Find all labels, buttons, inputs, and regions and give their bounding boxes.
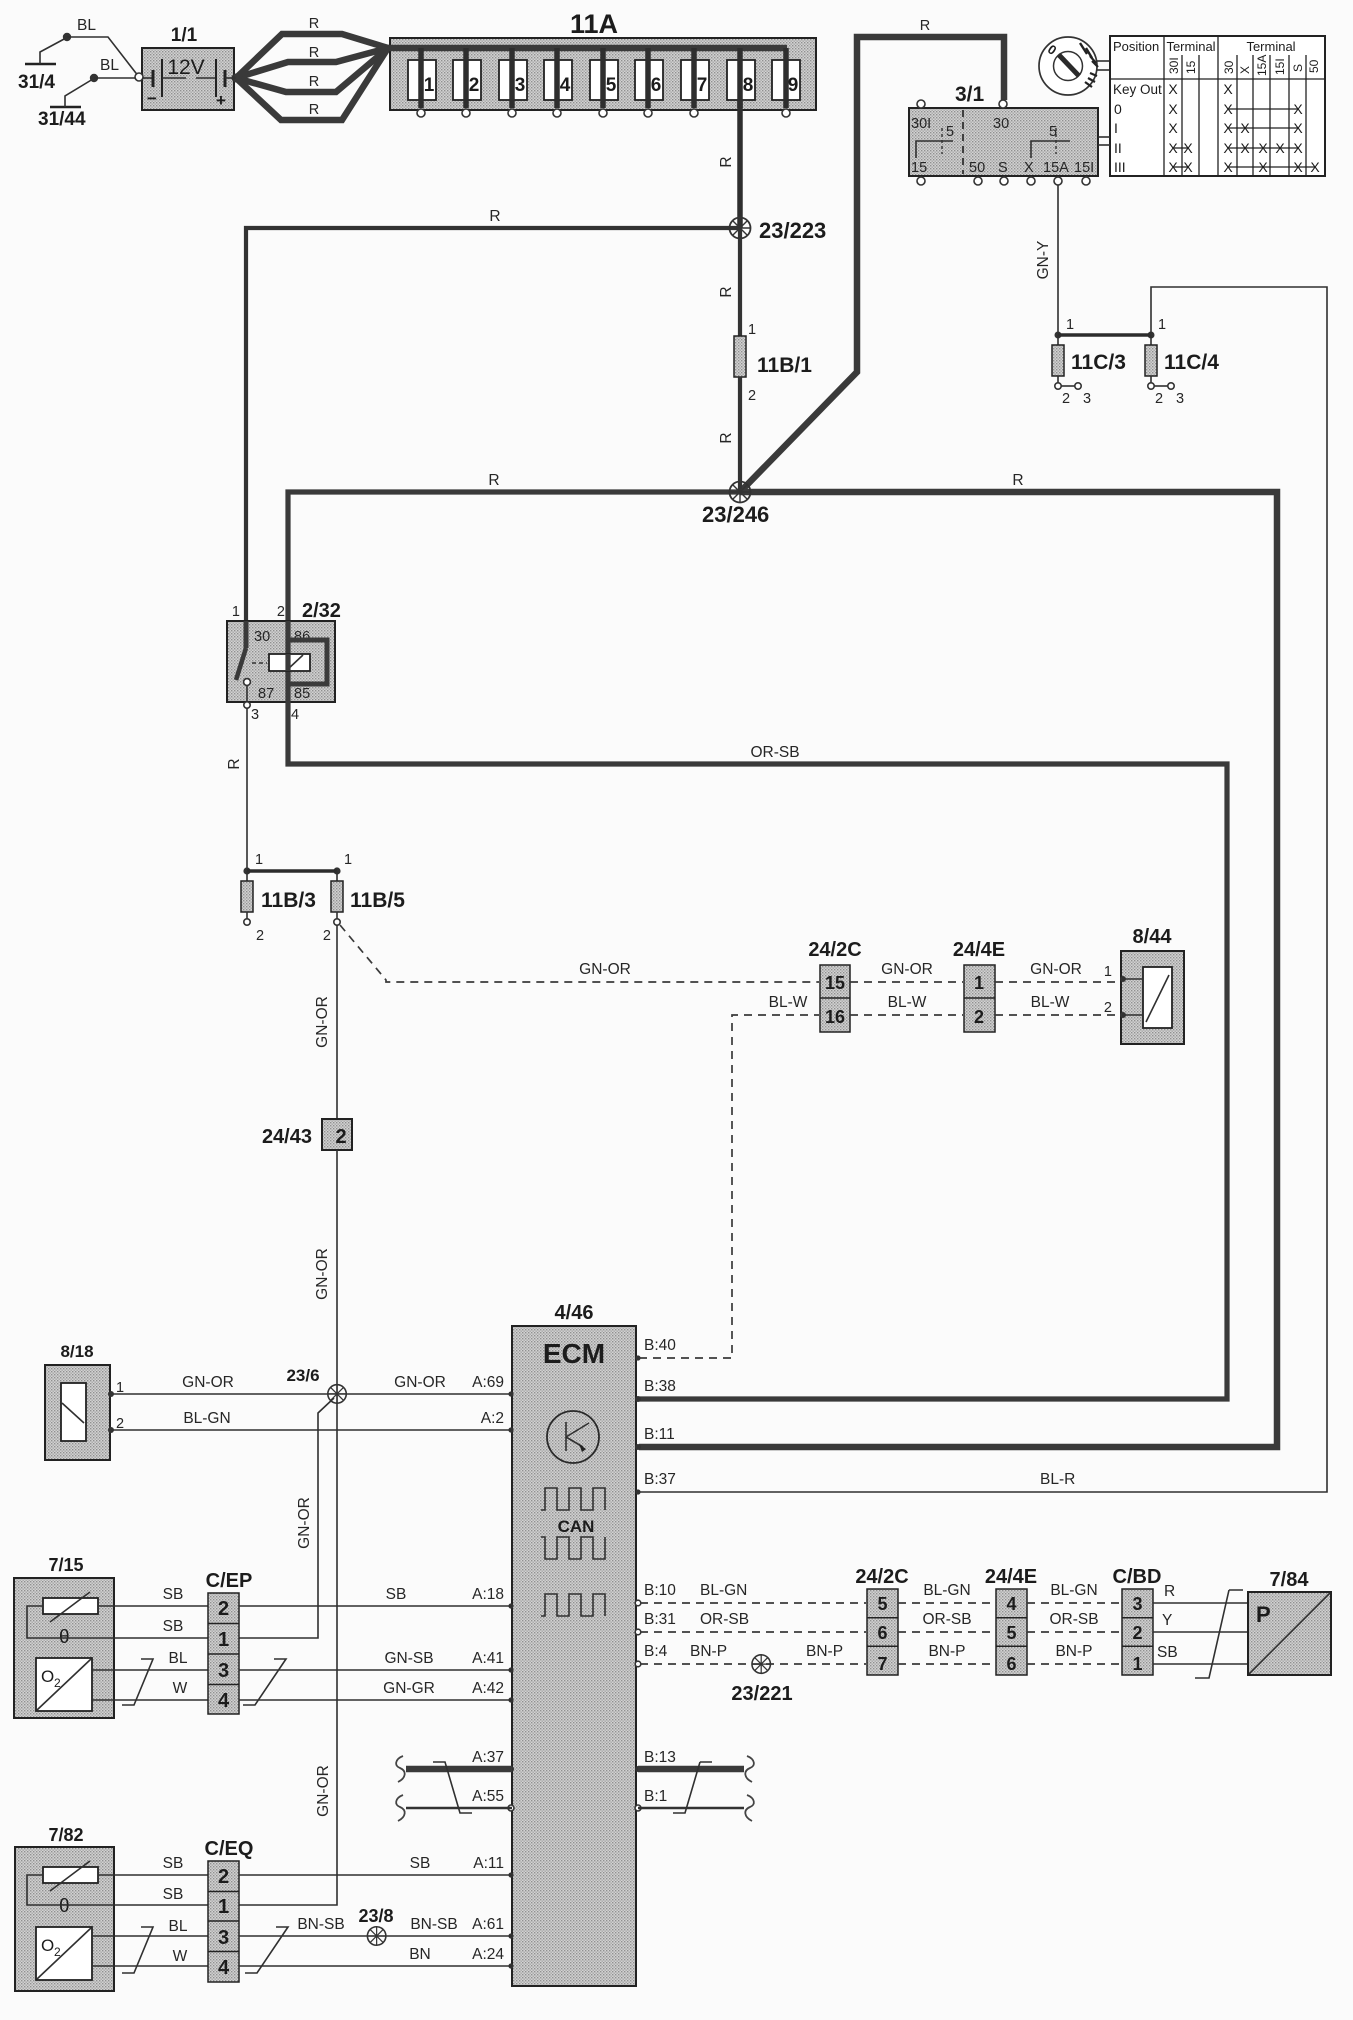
twisted-pair mark A:37/A:55 xyxy=(433,1762,472,1813)
svg-text:1: 1 xyxy=(1104,964,1112,980)
svg-text:3: 3 xyxy=(218,1927,229,1949)
svg-text:BN-P: BN-P xyxy=(806,1643,843,1660)
svg-text:7: 7 xyxy=(697,75,708,96)
svg-text:θ: θ xyxy=(59,1896,70,1917)
svg-text:1: 1 xyxy=(1066,317,1074,333)
svg-text:1: 1 xyxy=(748,322,756,338)
svg-text:2: 2 xyxy=(218,1866,229,1888)
svg-text:S: S xyxy=(998,160,1008,176)
svg-text:X: X xyxy=(1168,101,1178,117)
wire BL from 31/4 to battery xyxy=(67,37,139,77)
svg-text:X: X xyxy=(1168,120,1178,136)
wire B:13 stub xyxy=(638,1766,744,1773)
fuse 3 xyxy=(499,48,527,117)
svg-text:BL-GN: BL-GN xyxy=(1050,1582,1097,1599)
wire BN C/EQ pin4 to ECM A:24 xyxy=(239,1965,512,1967)
svg-text:SB: SB xyxy=(1157,1644,1178,1661)
svg-text:6: 6 xyxy=(1006,1654,1016,1674)
svg-text:R: R xyxy=(309,16,319,32)
svg-text:5: 5 xyxy=(606,75,617,96)
svg-text:BN-P: BN-P xyxy=(928,1643,965,1660)
ECM left pin dots xyxy=(508,1391,514,1968)
splice 23/221 xyxy=(752,1655,770,1673)
twisted-pair marks near C/EP xyxy=(122,1659,153,1705)
svg-text:30I: 30I xyxy=(911,116,931,132)
connector C/BD pins 3,2,1 xyxy=(1113,1566,1162,1675)
wire R from ignition 30 down to 23/246 xyxy=(742,37,1004,490)
svg-text:11B/5: 11B/5 xyxy=(350,889,405,912)
svg-text:R: R xyxy=(920,18,930,34)
svg-text:15I: 15I xyxy=(1273,58,1287,75)
svg-text:2: 2 xyxy=(469,75,480,96)
svg-text:OR-SB: OR-SB xyxy=(922,1611,971,1628)
svg-text:SB: SB xyxy=(163,1855,184,1872)
connector C/EQ xyxy=(205,1838,254,1982)
wire SB C/EP pin2 to ECM A:18 xyxy=(239,1605,512,1607)
svg-text:A:24: A:24 xyxy=(472,1946,504,1963)
svg-text:1: 1 xyxy=(232,604,240,620)
svg-text:−: − xyxy=(147,89,157,108)
svg-text:1/1: 1/1 xyxy=(171,25,198,46)
svg-text:1: 1 xyxy=(218,1896,229,1918)
fuse 11C/4 xyxy=(1145,335,1219,407)
svg-text:4: 4 xyxy=(218,1957,230,1979)
svg-text:2: 2 xyxy=(277,604,285,620)
svg-text:5: 5 xyxy=(877,1594,887,1614)
fuse 1 xyxy=(408,48,436,117)
fuse 8 xyxy=(727,48,755,108)
svg-text:4: 4 xyxy=(218,1690,230,1712)
svg-text:31/4: 31/4 xyxy=(18,72,55,93)
svg-text:A:11: A:11 xyxy=(473,1855,504,1872)
svg-text:1: 1 xyxy=(344,852,352,868)
svg-text:4: 4 xyxy=(291,707,299,723)
wire R 23/246 left to relay pin2 xyxy=(288,492,740,621)
svg-text:24/43: 24/43 xyxy=(262,1126,312,1148)
svg-text:A:61: A:61 xyxy=(472,1916,504,1933)
ignition switch 3/1 xyxy=(909,83,1098,185)
svg-text:BN-SB: BN-SB xyxy=(410,1916,457,1933)
svg-text:50: 50 xyxy=(1307,59,1321,73)
svg-text:24/4E: 24/4E xyxy=(953,939,1005,961)
wire R 23/223 down to 11B/1 xyxy=(738,228,742,336)
svg-text:8/18: 8/18 xyxy=(60,1342,93,1361)
svg-text:A:55: A:55 xyxy=(472,1788,504,1805)
svg-text:3/1: 3/1 xyxy=(955,83,985,106)
svg-text:24/2C: 24/2C xyxy=(808,939,861,961)
svg-text:W: W xyxy=(173,1948,188,1965)
ECM 4/46 xyxy=(512,1302,636,1986)
svg-text:31/44: 31/44 xyxy=(38,109,86,130)
svg-text:X: X xyxy=(1238,66,1252,74)
svg-text:2: 2 xyxy=(256,928,264,944)
wire R battery fan 4 xyxy=(236,48,388,120)
svg-text:GN-Y: GN-Y xyxy=(1035,241,1052,280)
svg-text:85: 85 xyxy=(294,686,310,702)
splice 23/223 xyxy=(730,218,751,239)
svg-text:ECM: ECM xyxy=(543,1338,605,1369)
svg-text:R: R xyxy=(488,472,499,489)
svg-text:4/46: 4/46 xyxy=(555,1302,594,1324)
svg-text:+: + xyxy=(216,91,226,110)
svg-text:BL-W: BL-W xyxy=(1031,994,1070,1011)
fuse 4 xyxy=(544,48,572,117)
svg-text:A:2: A:2 xyxy=(481,1410,504,1427)
svg-text:3: 3 xyxy=(1083,391,1091,407)
connector C/EP xyxy=(206,1570,253,1714)
svg-text:A:18: A:18 xyxy=(472,1586,504,1603)
svg-text:2: 2 xyxy=(1062,391,1070,407)
svg-text:2/32: 2/32 xyxy=(302,600,341,622)
wire A:37 stub xyxy=(406,1766,512,1773)
svg-text:6: 6 xyxy=(651,75,662,96)
svg-text:R: R xyxy=(309,45,319,61)
svg-text:SB: SB xyxy=(386,1586,407,1603)
svg-text:X: X xyxy=(1024,160,1034,176)
fuse 6 xyxy=(635,48,663,117)
svg-text:BN-P: BN-P xyxy=(1055,1643,1092,1660)
svg-text:C/EQ: C/EQ xyxy=(205,1838,254,1860)
ground 31/44 xyxy=(38,74,98,130)
svg-text:R: R xyxy=(309,102,319,118)
svg-text:R: R xyxy=(1012,472,1023,489)
wire R fuse8 down to 23/223 xyxy=(737,100,743,228)
svg-text:B:31: B:31 xyxy=(644,1611,676,1628)
fuse 11C/3 xyxy=(1052,335,1126,407)
svg-text:OR-SB: OR-SB xyxy=(1049,1611,1098,1628)
svg-text:2: 2 xyxy=(335,1126,346,1148)
svg-text:30: 30 xyxy=(993,116,1009,132)
svg-text:CAN: CAN xyxy=(558,1517,595,1536)
svg-text:SB: SB xyxy=(163,1886,184,1903)
wire GN-SB C/EP pin3 to ECM A:41 xyxy=(239,1669,512,1671)
key position table xyxy=(1098,36,1325,176)
svg-text:4: 4 xyxy=(560,75,571,96)
wire BN-P dashed ECM B:4 to 24/2C pin7 via 23/221 xyxy=(640,1663,866,1665)
svg-text:1: 1 xyxy=(1158,317,1166,333)
svg-text:2: 2 xyxy=(116,1416,124,1432)
wire R 23/223 left to relay pin1 xyxy=(246,228,740,650)
connector 24/2C pins 15,16 xyxy=(808,939,861,1032)
svg-text:7/15: 7/15 xyxy=(48,1555,83,1575)
fuse 5 xyxy=(590,48,618,117)
svg-text:3: 3 xyxy=(251,707,259,723)
svg-text:87: 87 xyxy=(258,686,274,702)
svg-text:11C/3: 11C/3 xyxy=(1071,351,1126,374)
svg-text:15A: 15A xyxy=(1043,160,1069,176)
component 7/15 xyxy=(14,1555,208,1718)
twisted-pair mark B:13/B:1 xyxy=(673,1762,712,1813)
svg-text:SB: SB xyxy=(163,1618,184,1635)
wire B:1 stub xyxy=(638,1807,744,1809)
svg-text:Key Out: Key Out xyxy=(1113,82,1162,97)
svg-text:11B/3: 11B/3 xyxy=(261,889,316,912)
connector 24/2C pins 5,6,7 xyxy=(855,1566,908,1675)
svg-text:GN-SB: GN-SB xyxy=(384,1650,433,1667)
svg-text:GN-OR: GN-OR xyxy=(579,961,631,978)
component 8/18 xyxy=(45,1342,124,1460)
svg-text:6: 6 xyxy=(877,1623,887,1643)
svg-text:86: 86 xyxy=(294,629,310,645)
node 11B bus xyxy=(243,867,250,874)
wire R 11B/1 down to 23/246 xyxy=(738,377,742,492)
wire GN-OR dashed 11B/5 to 24/2C pin15 xyxy=(340,925,819,982)
svg-text:B:1: B:1 xyxy=(644,1788,667,1805)
svg-text:11C/4: 11C/4 xyxy=(1164,351,1219,374)
svg-text:30I: 30I xyxy=(1167,57,1181,74)
svg-text:2: 2 xyxy=(218,1598,229,1620)
svg-text:24/2C: 24/2C xyxy=(855,1566,908,1588)
key symbol xyxy=(1039,37,1110,95)
svg-text:III: III xyxy=(1114,159,1126,175)
svg-text:1: 1 xyxy=(424,75,435,96)
svg-text:C/BD: C/BD xyxy=(1113,1566,1162,1588)
svg-text:A:69: A:69 xyxy=(472,1374,504,1391)
connector 24/43 pin2 xyxy=(262,1119,352,1150)
wire SB C/EQ pin2 to ECM A:11 xyxy=(239,1874,512,1876)
svg-text:1: 1 xyxy=(974,973,984,993)
svg-text:2: 2 xyxy=(1132,1623,1142,1643)
svg-text:GN-OR: GN-OR xyxy=(296,1497,313,1549)
wire GN-OR 8/18 pin1 to 23/6 to ECM A:69 xyxy=(110,1393,512,1395)
battery 1/1 xyxy=(135,25,241,110)
svg-text:B:11: B:11 xyxy=(644,1426,675,1443)
svg-text:Terminal: Terminal xyxy=(1246,39,1295,54)
svg-text:B:4: B:4 xyxy=(644,1643,668,1660)
svg-text:GN-OR: GN-OR xyxy=(315,1765,332,1817)
svg-text:GN-OR: GN-OR xyxy=(881,961,933,978)
svg-text:3: 3 xyxy=(1132,1594,1142,1614)
svg-text:S: S xyxy=(1291,64,1305,72)
connector 24/4E pins 4,5,6 xyxy=(985,1566,1037,1675)
svg-text:W: W xyxy=(173,1680,188,1697)
wire GN-OR 11B/5 down to 24/43 xyxy=(336,925,338,1119)
svg-text:BN-SB: BN-SB xyxy=(297,1916,344,1933)
node junction 15A bus xyxy=(1055,332,1062,339)
wire BL-W dashed to 24/2C pin16 from ECM B:40 xyxy=(639,1015,819,1358)
ECM CAN waveforms xyxy=(541,1488,605,1510)
svg-text:2: 2 xyxy=(54,1676,61,1690)
svg-text:Y: Y xyxy=(1162,1612,1172,1629)
svg-text:A:41: A:41 xyxy=(472,1650,504,1667)
svg-text:30: 30 xyxy=(254,629,270,645)
svg-text:GN-GR: GN-GR xyxy=(383,1680,435,1697)
svg-text:BL-GN: BL-GN xyxy=(183,1410,230,1427)
svg-text:R: R xyxy=(718,286,735,297)
svg-text:II: II xyxy=(1114,140,1122,156)
fuse box 11A xyxy=(388,9,816,110)
svg-text:BL-GN: BL-GN xyxy=(923,1582,970,1599)
svg-text:GN-OR: GN-OR xyxy=(314,1248,331,1300)
svg-text:24/4E: 24/4E xyxy=(985,1566,1037,1588)
svg-text:23/8: 23/8 xyxy=(358,1906,393,1926)
svg-text:3: 3 xyxy=(515,75,526,96)
wire GN-OR 24/43 down to 23/6 and C/EQ pin1 xyxy=(239,1150,337,1905)
svg-text:O: O xyxy=(41,1667,54,1686)
svg-text:B:10: B:10 xyxy=(644,1582,676,1599)
svg-text:GN-OR: GN-OR xyxy=(1030,961,1082,978)
svg-text:BL-W: BL-W xyxy=(888,994,927,1011)
svg-text:R: R xyxy=(489,208,500,225)
svg-text:1: 1 xyxy=(116,1380,124,1396)
wires dashed 24/4E to C/BD xyxy=(1027,1602,1121,1604)
svg-text:9: 9 xyxy=(788,75,799,96)
svg-text:BN-P: BN-P xyxy=(690,1643,727,1660)
twisted-pair mark before 7/84 xyxy=(1195,1590,1243,1678)
fuse 11B/3 xyxy=(241,871,316,944)
wire OR-SB dashed ECM B:31 to 24/2C pin6 xyxy=(640,1631,866,1633)
svg-text:R: R xyxy=(226,758,243,769)
svg-text:Terminal: Terminal xyxy=(1166,39,1215,54)
svg-text:BL-GN: BL-GN xyxy=(700,1582,747,1599)
svg-text:B:13: B:13 xyxy=(644,1749,676,1766)
svg-text:GN-OR: GN-OR xyxy=(182,1374,234,1391)
wire R battery fan 3 xyxy=(236,48,388,92)
wire BL-GN dashed ECM B:10 to 24/2C pin5 xyxy=(640,1602,866,1604)
svg-text:R: R xyxy=(1164,1583,1175,1600)
svg-text:2: 2 xyxy=(54,1945,61,1959)
svg-text:15I: 15I xyxy=(1074,160,1094,176)
svg-text:OR-SB: OR-SB xyxy=(700,1611,749,1628)
splice 23/246 xyxy=(730,482,751,503)
component 7/84 xyxy=(1248,1569,1331,1675)
wire OR-SB relay pin4 to ECM B:38 xyxy=(288,702,1227,1399)
wire GN-OR dashed 24/2C to 24/4E xyxy=(850,981,963,983)
wire GN-Y from terminal 15A xyxy=(1057,185,1059,333)
svg-text:0: 0 xyxy=(1114,101,1122,117)
wire A:55 stub xyxy=(406,1807,512,1809)
wire BL-W dashed 24/2C to 24/4E xyxy=(850,1014,963,1016)
fuse 7 xyxy=(681,48,709,117)
svg-text:C/EP: C/EP xyxy=(206,1570,253,1592)
svg-text:GN-OR: GN-OR xyxy=(394,1374,446,1391)
svg-text:BL: BL xyxy=(169,1650,188,1667)
svg-text:R: R xyxy=(718,432,735,443)
wire BN-SB C/EQ pin3 to ECM A:61 via 23/8 xyxy=(239,1935,512,1937)
splice 23/8 xyxy=(367,1927,385,1945)
wire BL-R from 11C/4 pin1 to ECM B:37 xyxy=(638,287,1327,1492)
svg-text:15: 15 xyxy=(825,973,845,993)
svg-text:11A: 11A xyxy=(570,9,618,39)
wire R 23/246 right to ECM B:11 xyxy=(639,492,1277,1447)
fuse 11B/5 xyxy=(323,871,405,944)
svg-text:3: 3 xyxy=(218,1660,229,1682)
svg-text:15: 15 xyxy=(911,160,927,176)
svg-text:R: R xyxy=(309,74,319,90)
wires dashed 24/2C to 24/4E xyxy=(898,1602,995,1604)
svg-text:B:37: B:37 xyxy=(644,1471,676,1488)
svg-text:23/6: 23/6 xyxy=(286,1366,319,1385)
svg-text:A:37: A:37 xyxy=(472,1749,504,1766)
component 8/44 xyxy=(1104,926,1184,1044)
svg-text:1: 1 xyxy=(255,852,263,868)
svg-text:BL-W: BL-W xyxy=(769,994,808,1011)
svg-text:50: 50 xyxy=(969,160,985,176)
svg-text:BL: BL xyxy=(77,17,96,34)
fuse 2 xyxy=(453,48,481,117)
svg-text:23/246: 23/246 xyxy=(702,502,769,527)
svg-text:B:40: B:40 xyxy=(644,1337,676,1354)
svg-text:1: 1 xyxy=(1132,1654,1142,1674)
svg-text:23/221: 23/221 xyxy=(731,1683,792,1705)
svg-text:2: 2 xyxy=(1155,391,1163,407)
svg-text:SB: SB xyxy=(163,1586,184,1603)
svg-text:7/82: 7/82 xyxy=(48,1825,83,1845)
wires C/BD to 7/84 xyxy=(1153,1602,1248,1604)
svg-text:23/223: 23/223 xyxy=(759,218,826,243)
svg-text:GN-OR: GN-OR xyxy=(314,996,331,1048)
component 7/82 xyxy=(15,1825,208,1991)
svg-text:B:38: B:38 xyxy=(644,1378,676,1395)
svg-text:11B/1: 11B/1 xyxy=(757,354,812,377)
svg-text:SB: SB xyxy=(410,1855,431,1872)
svg-text:3: 3 xyxy=(1176,391,1184,407)
svg-text:16: 16 xyxy=(825,1007,845,1027)
twisted-pair marks near C/EQ xyxy=(122,1927,153,1973)
svg-text:P: P xyxy=(1256,1602,1271,1627)
connector 24/4E pins 1,2 xyxy=(953,939,1005,1032)
svg-text:I: I xyxy=(1114,120,1118,136)
svg-text:30: 30 xyxy=(1222,60,1236,74)
svg-text:1: 1 xyxy=(218,1629,229,1651)
svg-text:BL: BL xyxy=(169,1918,188,1935)
svg-text:BL: BL xyxy=(100,57,119,74)
ECM knock symbol xyxy=(547,1411,599,1463)
wire BL-W dashed 24/4E to 8/44 xyxy=(995,1014,1120,1016)
svg-text:12V: 12V xyxy=(167,56,204,79)
wire BL from 31/44 to battery xyxy=(94,77,135,79)
svg-text:2: 2 xyxy=(323,928,331,944)
svg-text:R: R xyxy=(718,156,735,167)
svg-text:15A: 15A xyxy=(1255,55,1269,76)
svg-text:2: 2 xyxy=(1104,1000,1112,1016)
svg-text:2: 2 xyxy=(974,1007,984,1027)
svg-text:8: 8 xyxy=(743,75,754,96)
fuse 11B/1 xyxy=(734,322,812,404)
svg-text:5: 5 xyxy=(1049,124,1057,140)
svg-text:OR-SB: OR-SB xyxy=(750,744,799,761)
svg-text:BL-R: BL-R xyxy=(1040,1471,1075,1488)
svg-text:BN: BN xyxy=(409,1946,431,1963)
wire R relay pin3 down to 11B/3 xyxy=(246,708,248,871)
svg-text:7: 7 xyxy=(877,1654,887,1674)
svg-text:X: X xyxy=(1168,81,1178,97)
ECM right pin dots xyxy=(635,1355,641,1811)
svg-text:5: 5 xyxy=(1006,1623,1016,1643)
wire R battery fan 1 xyxy=(236,34,388,78)
svg-text:5: 5 xyxy=(946,124,954,140)
svg-text:A:42: A:42 xyxy=(472,1680,504,1697)
svg-text:O: O xyxy=(41,1936,54,1955)
wire BL-GN 8/18 pin2 to ECM A:2 xyxy=(110,1429,512,1431)
splice 23/6 xyxy=(328,1385,346,1403)
fuse 9 xyxy=(772,48,800,117)
svg-text:X: X xyxy=(1223,81,1233,97)
ground 31/4 xyxy=(18,33,71,93)
svg-text:8/44: 8/44 xyxy=(1133,926,1173,948)
svg-text:15: 15 xyxy=(1184,60,1198,74)
svg-text:7/84: 7/84 xyxy=(1270,1569,1310,1591)
wire GN-GR C/EP pin4 to ECM A:42 xyxy=(239,1699,512,1701)
wire R battery fan 2 xyxy=(236,48,388,78)
wire GN-OR branch 23/6 to C/EP pin1 xyxy=(239,1398,334,1638)
svg-text:2: 2 xyxy=(748,388,756,404)
svg-text:Position: Position xyxy=(1113,39,1159,54)
relay 2/32 xyxy=(227,600,341,723)
wire GN-OR dashed 24/4E to 8/44 xyxy=(995,981,1120,983)
svg-text:4: 4 xyxy=(1006,1594,1016,1614)
